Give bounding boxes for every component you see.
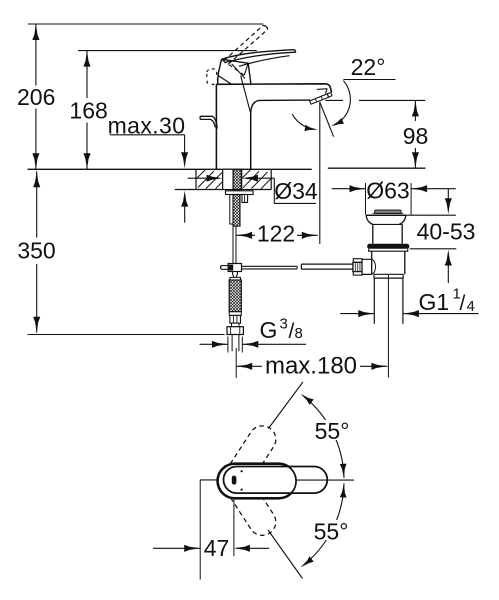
label 55 lower <box>312 519 350 545</box>
lever blade side edge <box>239 56 290 67</box>
svg-text:22°: 22° <box>351 54 386 80</box>
O34 arrow left leader <box>188 177 210 179</box>
drain seal lower band <box>369 249 408 251</box>
drain body <box>371 251 373 274</box>
svg-text:98: 98 <box>403 123 429 149</box>
flange step block <box>242 195 248 203</box>
O63 arrow left <box>350 185 366 192</box>
handle dot lower <box>241 489 243 491</box>
pull rod <box>232 226 234 263</box>
lower threaded shank <box>233 195 240 227</box>
spout underside curve <box>251 100 311 114</box>
linkage rod segment 1 <box>242 265 298 267</box>
handle dot upper <box>241 470 243 472</box>
dimension 206 arrow down <box>32 153 39 169</box>
max.180 dimension line <box>236 365 262 367</box>
extension line hose end (350 bottom reference) <box>28 334 225 336</box>
dimension 206 vertical line <box>35 24 37 86</box>
drain pipe shoulder <box>374 273 403 275</box>
svg-text:206: 206 <box>17 84 55 110</box>
O34 arrow left <box>207 175 223 182</box>
47 arrow right <box>234 545 250 552</box>
svg-text:122: 122 <box>257 220 295 246</box>
flange seat reference line <box>366 214 456 216</box>
dimension 350 arrow down <box>33 317 40 333</box>
handle lever outline top view <box>223 467 327 494</box>
47 extension tick <box>200 479 217 481</box>
dimension 122 line <box>236 234 255 236</box>
O63 dimension line <box>332 188 366 190</box>
22deg arc left <box>292 114 305 126</box>
svg-text:Ø34: Ø34 <box>274 178 318 204</box>
lower shank smooth part <box>230 195 233 225</box>
countertop hatch left block <box>195 169 197 189</box>
hose bottom ferrule <box>229 312 241 316</box>
G1 1/4 arrow right <box>403 310 419 317</box>
svg-text:G1: G1 <box>419 289 450 315</box>
drain flange inner line <box>373 223 402 225</box>
shank block in hole <box>223 169 233 189</box>
raised lever dashed line 1 <box>224 25 263 60</box>
svg-text:47: 47 <box>204 535 230 561</box>
G3/8 extension lines <box>227 337 229 353</box>
svg-text:3: 3 <box>280 316 288 333</box>
extension line aerator level <box>326 99 344 101</box>
svg-text:55°: 55° <box>315 418 350 444</box>
svg-text:4: 4 <box>467 298 475 315</box>
svg-text:55°: 55° <box>314 519 349 545</box>
faucet body top edge and spout <box>216 84 331 93</box>
handle body right cap arc <box>279 464 296 499</box>
dashed handle rotated +55 <box>221 426 276 497</box>
water stream tilted line <box>320 102 334 137</box>
47 extension line left <box>199 480 201 580</box>
dimension 47 line <box>153 547 200 549</box>
hose top ferrule <box>230 277 241 280</box>
max.30 lower arrow up <box>181 191 188 207</box>
angle arc lower <box>304 483 344 565</box>
body chamfer line <box>241 76 251 114</box>
22deg leader line <box>343 79 395 81</box>
O63 arrow right <box>411 185 427 192</box>
svg-text:350: 350 <box>17 238 55 264</box>
dimension 98 arrow up <box>412 100 419 116</box>
drain pipe walls <box>373 278 375 324</box>
dimension 168 vertical line <box>86 51 88 98</box>
max.180 arrow left <box>236 363 252 370</box>
handle base inner diagonal <box>222 60 244 75</box>
dimension 98 vertical line <box>414 100 416 121</box>
lever blade tip <box>295 50 296 53</box>
braided hose <box>229 280 241 312</box>
O34 arrow right <box>242 175 258 182</box>
dimension 168 arrow down <box>83 153 90 169</box>
linkage left stub <box>221 265 228 267</box>
svg-text:G: G <box>260 317 278 343</box>
40-53 arrow down <box>445 198 452 214</box>
arc arrow up to centerline <box>340 483 347 497</box>
handle pivot mark <box>232 476 237 485</box>
22deg arc right <box>335 81 350 125</box>
G3/8 arrow right <box>242 341 258 348</box>
linkage tee block <box>228 264 241 272</box>
dashed handle rotated -55 <box>221 465 276 536</box>
faucet body left edge <box>215 84 217 169</box>
drain knob <box>353 259 362 263</box>
dimension 168 arrow up <box>83 51 90 67</box>
pull-rod knob on body <box>200 116 217 128</box>
svg-text:Ø63: Ø63 <box>366 177 409 203</box>
22deg arc right arrowhead <box>331 118 344 126</box>
label 55 upper <box>313 418 351 444</box>
linkage rod segment 2 <box>301 263 353 265</box>
raised lever tip cap <box>263 25 268 29</box>
radial line -55 <box>268 530 303 579</box>
40-53 dim upper line <box>447 189 449 202</box>
drain flange <box>366 215 406 244</box>
pop-up cap <box>375 210 402 213</box>
G1 1/4 arrow left <box>358 310 374 317</box>
O63 extension lines <box>365 183 367 215</box>
handle base inner line <box>244 63 248 75</box>
handle body outline top view <box>218 464 297 499</box>
spout tip bevel line <box>317 88 327 91</box>
arc arrow at radial -55 <box>301 556 314 567</box>
threaded shank in hole <box>233 169 241 191</box>
svg-text:40-53: 40-53 <box>417 218 476 244</box>
supply pipe <box>231 335 233 352</box>
handle base skirt line <box>219 76 232 84</box>
radial line +55 <box>268 382 303 429</box>
max.180 arrow right <box>371 363 387 370</box>
seal bottom reference line <box>410 248 457 250</box>
max.30 arrow down to countertop <box>181 152 188 168</box>
lever blade lower edge <box>225 52 296 63</box>
47 arrow left <box>184 545 200 552</box>
drain center rod <box>387 274 389 377</box>
drain body port arc <box>372 259 376 274</box>
arc arrow at radial +55 <box>301 394 314 405</box>
hose connector neck <box>232 323 240 327</box>
raised lever back end dashed <box>207 68 218 84</box>
47 extension line right <box>233 499 235 557</box>
G3/8 arrow left <box>212 341 228 348</box>
handle base polygon <box>218 59 251 84</box>
water stream vertical line <box>319 103 321 244</box>
arc arrow down to centerline <box>340 464 347 478</box>
svg-text:max.180: max.180 <box>265 353 357 380</box>
countertop top line <box>28 168 312 170</box>
handle centerline <box>296 479 354 481</box>
countertop line right segment <box>328 167 426 169</box>
extension line top of lever rest (168 reference) <box>78 50 257 52</box>
G3/8 dimension line <box>200 343 228 345</box>
max.30 leader line <box>110 134 185 136</box>
angle arc upper <box>304 396 344 478</box>
drain side port <box>362 259 372 274</box>
hose connector ridged <box>230 315 241 323</box>
raised lever dashed line 2 <box>229 29 268 64</box>
countertop hatch right block <box>241 169 243 189</box>
svg-text:168: 168 <box>69 98 107 124</box>
max.180 extension line left <box>235 348 237 378</box>
countertop bottom line <box>175 189 272 191</box>
dimension 206 arrow up <box>32 24 39 40</box>
40-53 arrow up <box>445 250 452 266</box>
lever blade top edge <box>222 50 295 60</box>
dimension 122 arrow right <box>302 232 318 239</box>
O34 right leader <box>255 177 275 179</box>
svg-text:/: / <box>460 292 466 315</box>
hose nut <box>227 327 243 335</box>
dimension 122 arrow left <box>236 232 252 239</box>
G1 1/4 dimension line <box>340 313 374 315</box>
dimension 98 arrow down <box>412 152 419 168</box>
dimension 350 vertical line <box>36 171 38 237</box>
extension line top of raised lever (206 reference) <box>28 23 263 25</box>
22deg arc left arrowhead <box>305 125 318 131</box>
spout inner edge vertical <box>250 114 252 170</box>
drain seal ring <box>367 244 409 249</box>
dimension 350 arrow up <box>33 171 40 187</box>
svg-text:8: 8 <box>295 325 303 342</box>
escutcheon flange <box>226 191 254 195</box>
aerator tilted 22 deg <box>310 94 329 104</box>
tee lower stub <box>233 272 238 278</box>
